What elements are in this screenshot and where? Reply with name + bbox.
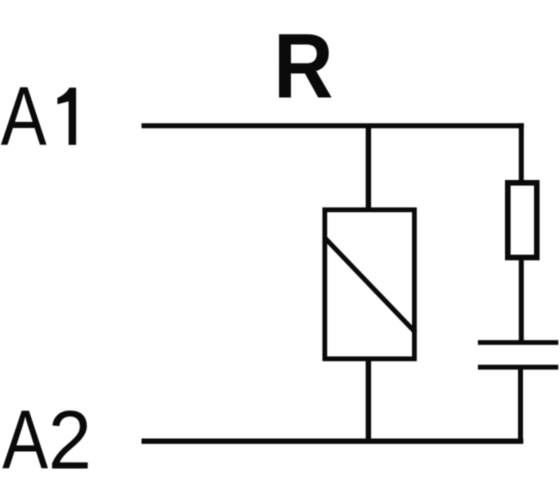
capacitor C1 bottom plate <box>478 365 558 370</box>
wire right rail upper <box>519 123 524 183</box>
relay coil K1 diagonal <box>324 237 416 333</box>
svg-text:A: A <box>2 394 48 487</box>
svg-text:2: 2 <box>48 395 92 487</box>
resistor R1 <box>508 183 537 258</box>
wire top A1 rail <box>142 123 524 128</box>
capacitor C1 top plate <box>478 340 558 345</box>
svg-text:R: R <box>274 15 334 118</box>
wire right rail middle <box>519 258 524 344</box>
svg-text:A: A <box>1 71 47 164</box>
wire relay stub top <box>366 126 371 210</box>
wire right rail lower <box>518 367 523 441</box>
wire relay stub bottom <box>366 359 371 441</box>
wire bottom A2 rail <box>142 439 524 444</box>
relay coil K1 body <box>325 210 415 359</box>
terminal label A1 digit 1 <box>57 88 76 145</box>
